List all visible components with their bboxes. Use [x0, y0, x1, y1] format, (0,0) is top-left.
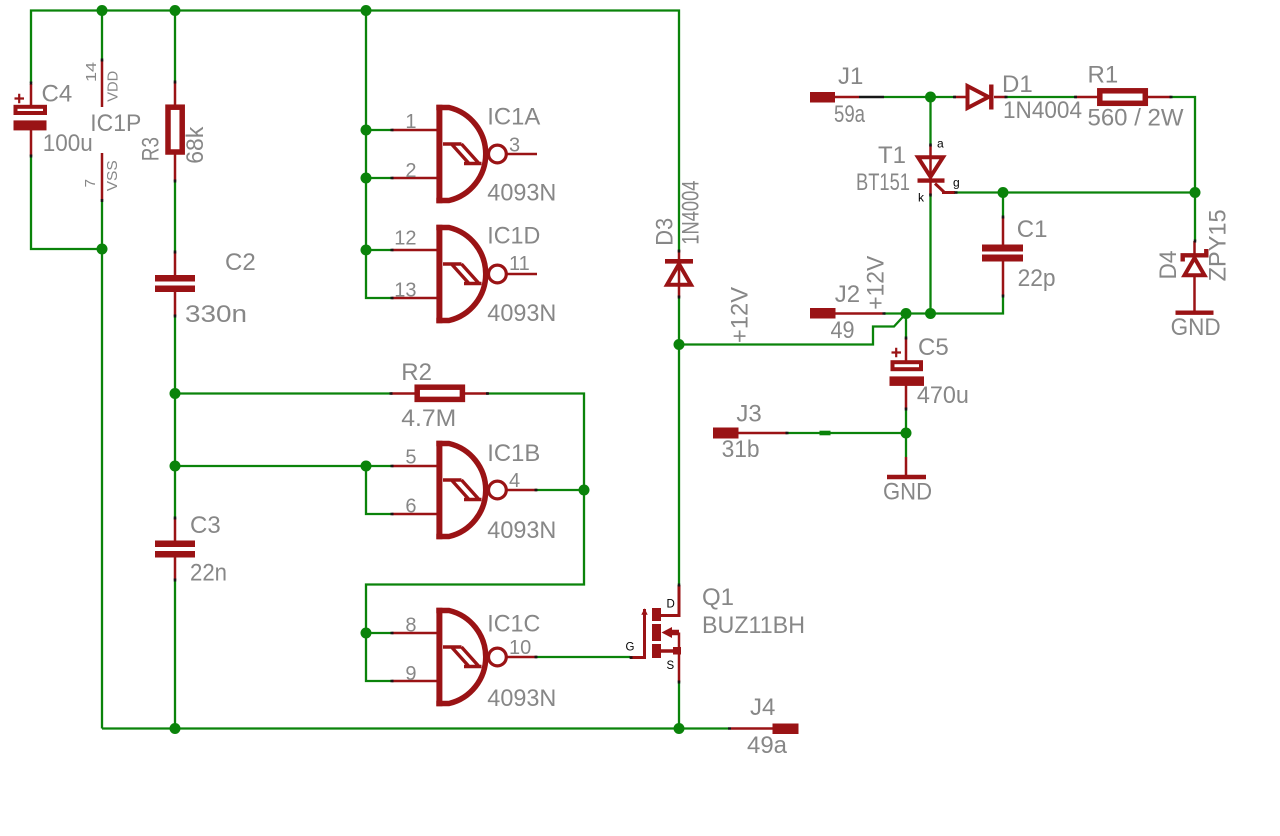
wire C2 down through R2 and IC1B taps to C3 — [174, 316, 176, 518]
node gate-line/R1/D4 — [1190, 187, 1201, 198]
svg-text:J3: J3 — [736, 400, 761, 427]
node C3/VSS rail — [170, 723, 181, 734]
svg-text:100u: 100u — [43, 130, 93, 157]
MOSFET Q1 BUZ11BH — [626, 584, 806, 682]
wire GND node down to ground symbol — [905, 433, 907, 457]
diode D3 1N4004 vertical — [652, 181, 705, 297]
wire stub to IC1D pin12 — [366, 249, 392, 251]
svg-text:6: 6 — [405, 496, 416, 518]
svg-text:C5: C5 — [918, 334, 949, 361]
node Q1 source/VSS — [674, 723, 685, 734]
resistor R1 560/2W horizontal — [1075, 62, 1184, 132]
svg-text:68k: 68k — [182, 126, 209, 164]
capacitor C1 22p — [982, 216, 1056, 296]
wire node down to T1 anode — [929, 97, 931, 145]
svg-text:J4: J4 — [750, 694, 775, 721]
svg-text:11: 11 — [509, 253, 530, 275]
svg-text:R1: R1 — [1088, 62, 1119, 89]
wire R3 to C2 — [174, 181, 176, 252]
svg-text:2: 2 — [405, 160, 416, 182]
op-amp style NAND gate IC1B 4093N — [392, 440, 556, 544]
node IC1D pin12 — [361, 245, 372, 256]
capacitor C4 electrolytic 100u — [14, 81, 93, 158]
node IC1A pin1 — [361, 125, 372, 136]
wire stub to IC1A pin1 — [366, 129, 392, 131]
svg-text:BUZ11BH: BUZ11BH — [702, 612, 805, 639]
svg-text:GND: GND — [883, 478, 932, 505]
wire stub to IC1A pin2 — [366, 177, 392, 179]
diode D1 1N4004 horizontal — [954, 71, 1082, 124]
wire VDD stub down to IC1P pin14 — [101, 11, 103, 61]
wire IC1C pin9 feed — [366, 633, 392, 681]
wire C3 bottom to VSS rail — [174, 580, 176, 729]
node VDD/IC1P — [97, 5, 108, 16]
node IC1C pin8 — [361, 628, 372, 639]
connector pad J4 — [728, 694, 799, 759]
svg-text:C4: C4 — [42, 81, 73, 108]
svg-text:k: k — [918, 191, 925, 205]
svg-text:ZPY15: ZPY15 — [1205, 209, 1232, 281]
svg-text:g: g — [953, 176, 960, 190]
node IC1B pin5 — [361, 461, 372, 472]
svg-text:IC1P: IC1P — [90, 110, 141, 137]
wire Q1 source to VSS rail — [678, 682, 680, 729]
wire VDD stub down to R3 — [174, 11, 176, 83]
svg-text:4.7M: 4.7M — [401, 405, 456, 432]
wire IC1C output pin10 to Q1 gate — [535, 656, 630, 658]
node R2/C2 — [170, 388, 181, 399]
wire feedback from pin4 node down and left to IC1C inputs — [366, 490, 584, 633]
wire +12V run from D3 node to J2 node with jog — [679, 314, 906, 345]
wire R2 right to IC1B output node — [487, 394, 584, 491]
svg-text:3: 3 — [509, 135, 520, 157]
svg-text:22p: 22p — [1018, 265, 1056, 292]
ground symbol at D4 — [1171, 313, 1221, 341]
wire C4 bottom to VSS node — [31, 156, 102, 249]
svg-text:14: 14 — [83, 62, 100, 82]
wire D1 cathode to R1 — [1006, 96, 1075, 98]
wire +12V node across to C1 bottom — [906, 296, 1003, 314]
wire J2 pin to node — [884, 312, 906, 314]
wire J3 to GND node — [787, 432, 906, 434]
svg-text:10: 10 — [509, 637, 531, 659]
wire node to IC1B pin5 row — [175, 465, 366, 467]
wire IC1B output pin4 — [535, 489, 584, 491]
svg-text:+12V: +12V — [863, 256, 890, 310]
svg-text:8: 8 — [405, 615, 416, 637]
svg-text:59a: 59a — [834, 101, 866, 128]
wire IC1C pin8 stub — [366, 632, 392, 634]
wire IC1P pin7 down — [101, 201, 103, 250]
node J1/D1/T1 — [925, 92, 936, 103]
op-amp style NAND gate IC1D 4093N — [392, 223, 556, 327]
resistor R3 68k vertical — [138, 82, 209, 181]
svg-text:9: 9 — [405, 663, 416, 685]
zener diode D4 ZPY15 — [1155, 209, 1232, 311]
svg-text:T1: T1 — [878, 142, 906, 169]
svg-text:C2: C2 — [225, 249, 256, 276]
wire T1 cathode down to +12V node — [929, 195, 931, 314]
node gate-line/C1 — [998, 187, 1009, 198]
wire oscillator input bus vertical to IC1D pin13 — [366, 11, 392, 299]
IC1P power pins of 4093 — [82, 60, 141, 201]
svg-text:560 / 2W: 560 / 2W — [1088, 105, 1184, 132]
svg-text:49: 49 — [831, 317, 855, 344]
svg-text:R3: R3 — [138, 137, 165, 161]
wire R2 left — [175, 392, 391, 394]
svg-text:31b: 31b — [722, 436, 760, 463]
wire IC1B pin5 stub — [366, 465, 392, 467]
connector pad J3 — [713, 400, 831, 463]
svg-text:330n: 330n — [185, 301, 247, 328]
wire IC1B pin6 feed — [366, 466, 392, 514]
svg-text:C1: C1 — [1017, 216, 1048, 243]
wire D3 anode down to Q1 drain — [678, 297, 680, 585]
svg-text:D4: D4 — [1155, 251, 1182, 280]
capacitor C5 electrolytic 470u — [890, 334, 969, 409]
svg-text:J2: J2 — [835, 281, 860, 308]
svg-text:IC1B: IC1B — [487, 440, 540, 467]
svg-text:IC1D: IC1D — [487, 223, 540, 250]
node VDD/gate-bus — [361, 5, 372, 16]
capacitor C2 330n — [155, 249, 256, 328]
svg-text:D3: D3 — [652, 218, 679, 246]
svg-text:a: a — [937, 137, 944, 151]
svg-text:VSS: VSS — [104, 160, 121, 191]
svg-text:J1: J1 — [838, 63, 863, 90]
svg-text:5: 5 — [405, 447, 416, 469]
svg-text:VDD: VDD — [105, 71, 122, 102]
svg-text:D1: D1 — [1002, 71, 1033, 98]
op-amp style NAND gate IC1C 4093N — [392, 608, 556, 712]
svg-text:1: 1 — [405, 111, 416, 133]
connector pad J1 — [810, 63, 884, 128]
svg-text:BT151: BT151 — [856, 169, 910, 196]
node VSS/C4 — [97, 244, 108, 255]
node C5/J3/GND — [901, 428, 912, 439]
wire C5 bottom to GND node — [905, 409, 907, 433]
svg-text:IC1C: IC1C — [487, 610, 540, 637]
wire C1 top stub — [1002, 193, 1004, 218]
svg-text:S: S — [667, 660, 675, 672]
svg-text:1N4004: 1N4004 — [678, 181, 705, 245]
svg-text:12: 12 — [394, 228, 416, 250]
op-amp style NAND gate IC1A 4093N — [392, 103, 556, 206]
svg-text:G: G — [626, 642, 635, 654]
wire J1 to T1 anode node — [884, 96, 931, 98]
node J2/C5 — [901, 308, 912, 319]
svg-text:Q1: Q1 — [702, 584, 734, 611]
capacitor C3 22n — [155, 512, 227, 587]
ground symbol at C5/J3 node — [883, 457, 932, 505]
node T1 cathode/+12V — [925, 308, 936, 319]
svg-text:4093N: 4093N — [487, 517, 556, 544]
wire VDD top rail with left drop to C4 and right drop to D3 — [31, 11, 679, 251]
svg-text:GND: GND — [1171, 314, 1221, 341]
svg-text:4: 4 — [509, 470, 520, 492]
svg-text:IC1A: IC1A — [487, 103, 540, 130]
svg-text:22n: 22n — [190, 560, 227, 587]
wire C5 top stub — [905, 314, 907, 339]
node IC1B pin4/R2 — [579, 485, 590, 496]
node C2/IC1B row — [170, 461, 181, 472]
node VDD/R3 — [170, 5, 181, 16]
svg-text:4093N: 4093N — [487, 180, 556, 207]
connector pad J2 — [810, 281, 886, 344]
node IC1A pin2 — [361, 173, 372, 184]
wire D4 top stub — [1194, 193, 1196, 242]
wire VSS node to J4 — [679, 727, 728, 729]
resistor R2 4.7M horizontal — [391, 359, 488, 432]
svg-text:1N4004: 1N4004 — [1003, 97, 1082, 124]
thyristor T1 BT151 — [856, 137, 960, 205]
svg-text:R2: R2 — [401, 359, 432, 386]
svg-text:+12V: +12V — [727, 287, 754, 343]
wire node to D1 anode — [931, 96, 955, 98]
wire VSS bottom rail — [102, 727, 679, 729]
pin end connection ticks — [31, 59, 1195, 684]
svg-text:D: D — [667, 599, 675, 611]
svg-text:470u: 470u — [917, 382, 969, 409]
svg-text:13: 13 — [394, 280, 416, 302]
wire R1 right down to gate line — [1171, 97, 1195, 193]
node D3/+12V — [674, 339, 685, 350]
svg-text:4093N: 4093N — [487, 685, 556, 712]
svg-text:C3: C3 — [190, 512, 221, 539]
svg-text:4093N: 4093N — [487, 300, 556, 327]
wire VSS left vertical rail — [101, 249, 103, 729]
wire T1 gate line to D4 — [955, 191, 1195, 193]
svg-text:49a: 49a — [747, 732, 788, 759]
svg-text:7: 7 — [82, 179, 99, 187]
